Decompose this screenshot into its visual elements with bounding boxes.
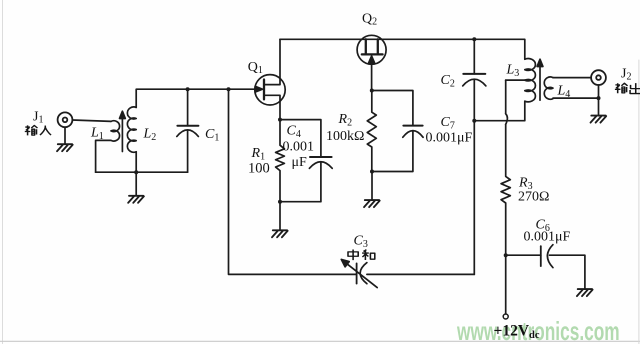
svg-text:μF: μF bbox=[292, 155, 308, 170]
svg-text:L3: L3 bbox=[506, 63, 520, 80]
svg-text:C4: C4 bbox=[287, 124, 301, 141]
svg-text:100kΩ: 100kΩ bbox=[326, 129, 364, 144]
svg-text:C3: C3 bbox=[354, 234, 368, 251]
svg-text:C1: C1 bbox=[205, 127, 219, 144]
svg-text:L1: L1 bbox=[90, 126, 104, 143]
svg-text:0.001μF: 0.001μF bbox=[524, 230, 571, 245]
svg-text:L4: L4 bbox=[557, 84, 571, 101]
svg-text:0.001μF: 0.001μF bbox=[426, 131, 473, 146]
svg-text:J1: J1 bbox=[33, 110, 43, 126]
svg-text:+12Vdc: +12Vdc bbox=[494, 323, 540, 342]
svg-text:Q2: Q2 bbox=[362, 12, 377, 28]
svg-text:L2: L2 bbox=[143, 127, 157, 144]
svg-text:C7: C7 bbox=[441, 115, 455, 132]
svg-text:J2: J2 bbox=[621, 67, 631, 83]
svg-text:100: 100 bbox=[248, 161, 270, 177]
svg-text:270Ω: 270Ω bbox=[518, 190, 549, 205]
svg-text:C2: C2 bbox=[441, 73, 455, 90]
svg-text:0.001: 0.001 bbox=[283, 140, 315, 155]
svg-text:R2: R2 bbox=[338, 112, 353, 129]
svg-text:Q1: Q1 bbox=[248, 60, 263, 76]
